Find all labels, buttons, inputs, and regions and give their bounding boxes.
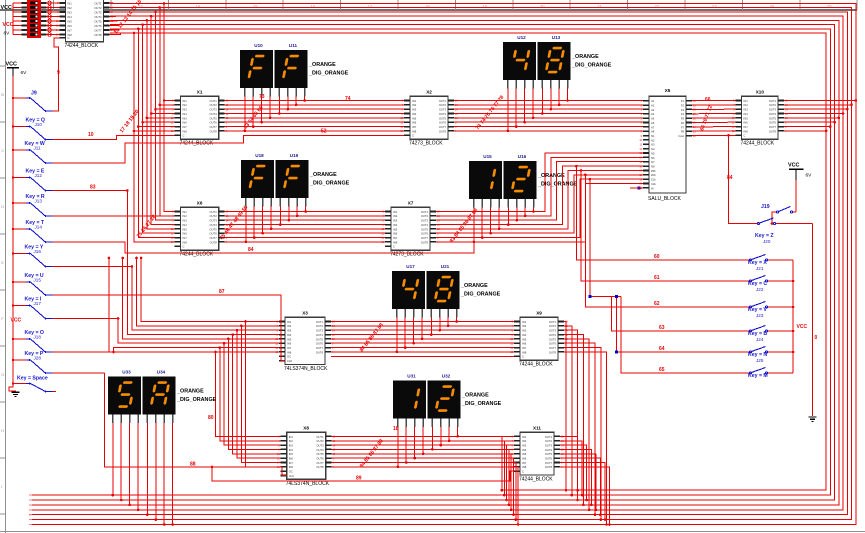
svg-text:OUT1: OUT1 [210,210,218,214]
svg-text:IN1: IN1 [412,99,417,103]
svg-text:ZFb: ZFb [651,173,656,177]
svg-text:74244_BLOCK: 74244_BLOCK [180,141,214,147]
svg-text:OUT1: OUT1 [545,435,553,439]
svg-text:A4: A4 [651,112,655,116]
svg-text:U16: U16 [518,154,527,159]
svg-text:X1: X1 [197,90,203,95]
svg-text:OUT1: OUT1 [316,320,324,324]
svg-text:C: C [183,245,185,249]
wires: X2 outputs to X5 A inputs [454,100,643,102]
svg-text:IN3: IN3 [522,444,527,448]
svg-text:IN8: IN8 [287,350,292,354]
svg-text:74244_BLOCK: 74244_BLOCK [65,43,99,49]
svg-text:IN7: IN7 [289,461,294,465]
IC X1 74244_BLOCK [171,90,229,147]
svg-text:OUT8: OUT8 [210,240,218,244]
svg-text:OUT6: OUT6 [210,232,218,236]
wires: X1 outputs to X2 inputs (bus R1) [225,100,404,102]
7-seg display U32 showing 2 [428,374,461,428]
svg-text:IN7: IN7 [744,125,749,129]
switch Key = I [13,297,52,321]
svg-text:OUT3: OUT3 [210,108,218,112]
svg-text:OUT6: OUT6 [210,121,218,125]
svg-text:OUT6: OUT6 [549,342,557,346]
7-seg display U11 showing F [275,43,308,97]
svg-text:_ORANGE: _ORANGE [309,172,337,178]
svg-text:OUT3: OUT3 [210,219,218,223]
svg-text:IN5: IN5 [522,337,527,341]
svg-text:C: C [412,134,414,138]
svg-text:IN6: IN6 [393,232,398,236]
svg-text:OUT6: OUT6 [316,342,324,346]
svg-text:IN3: IN3 [183,108,188,112]
svg-text:IN1: IN1 [522,435,527,439]
svg-text:IN8: IN8 [183,240,188,244]
svg-text:6V: 6V [806,173,813,179]
svg-text:Cout: Cout [678,134,684,138]
svg-text:OUT8: OUT8 [421,240,429,244]
svg-text:OUT7: OUT7 [421,236,429,240]
svg-text:74244_BLOCK: 74244_BLOCK [519,362,553,368]
svg-text:IN5: IN5 [183,227,188,231]
wires: X7 outputs nest up to X5 N inputs [436,153,643,212]
svg-text:IN4: IN4 [287,333,292,337]
switch Key = W [13,141,52,165]
wires: X11 outputs down to bottom bus [560,436,578,490]
svg-text:N1: N1 [651,134,655,138]
svg-text:OUT2: OUT2 [421,214,429,218]
svg-text:IN7: IN7 [183,236,188,240]
IC X5 SALU_BLOCK [639,88,696,202]
junction squares (blue) on net 62 [589,295,592,298]
svg-text:OUT5: OUT5 [769,116,777,120]
svg-text:IN6: IN6 [287,342,292,346]
svg-text:74273_BLOCK: 74273_BLOCK [409,141,443,147]
power VCC right symbol [788,163,812,181]
svg-text:IN6: IN6 [68,24,73,28]
7-seg display U17 showing 4 [392,264,425,318]
wire: key Z to ground rail [812,224,814,417]
svg-text:C: C [183,134,185,138]
wires: X8 outputs to X11 inputs (bus R4) [332,435,514,437]
wire net 84 [52,242,474,253]
svg-text:U12: U12 [517,35,526,40]
svg-text:IN4: IN4 [412,112,417,116]
svg-text:F2: F2 [681,104,685,108]
svg-text:N2: N2 [651,138,655,142]
switch Key = R [13,194,52,218]
svg-text:OUT1: OUT1 [210,99,218,103]
wire: right VCC rail [795,180,797,212]
svg-text:IN3: IN3 [68,10,73,14]
svg-text:OUT4: OUT4 [94,15,102,19]
svg-text:OUT7: OUT7 [316,461,324,465]
svg-text:OUT6: OUT6 [439,121,447,125]
svg-text:IN2: IN2 [287,324,292,328]
svg-text:IN7: IN7 [393,236,398,240]
wires: X6 outputs to X7 inputs (bus R2) [225,211,385,213]
svg-text:IN1: IN1 [183,210,188,214]
wires: U18/U19 pins down to R2 rows [245,207,247,242]
svg-text:87: 87 [219,289,225,295]
svg-text:_DIG_ORANGE: _DIG_ORANGE [308,71,349,77]
junction dot X5 W pin [638,187,641,190]
svg-text:_ORANGE: _ORANGE [308,62,336,68]
svg-text:OUT8: OUT8 [94,33,102,37]
svg-text:OUT1: OUT1 [549,320,557,324]
svg-text:VCC: VCC [1,5,12,11]
svg-text:IN1: IN1 [393,210,398,214]
svg-text:65: 65 [659,367,665,373]
svg-text:J18: J18 [34,335,42,340]
svg-text:OUT4: OUT4 [769,112,777,116]
svg-text:IN2: IN2 [522,439,527,443]
svg-text:IN5: IN5 [522,452,527,456]
wires: U12/U13 pins down to R1 rows [507,89,509,131]
IC X11 74244_BLOCK [510,426,564,483]
svg-text:OUT3: OUT3 [421,219,429,223]
svg-text:C: C [68,36,70,40]
IC X10 74244_BLOCK [732,90,789,147]
switch J20 Key=Z [755,218,813,244]
svg-text:OUT4: OUT4 [210,223,218,227]
svg-text:F6: F6 [681,121,685,125]
svg-text:OUT5: OUT5 [545,452,553,456]
svg-text:A2: A2 [651,104,655,108]
svg-text:N4: N4 [651,147,655,151]
svg-text:IN7: IN7 [68,28,73,32]
svg-text:IN2: IN2 [744,103,749,107]
wires: X10 outputs to right wrap bus [784,100,856,102]
switch Key = T [13,220,52,244]
wire net 87: key I to X3 clock [52,295,285,361]
IC X9 74244_BLOCK [510,311,568,368]
svg-text:F3: F3 [681,108,685,112]
svg-text:N8: N8 [651,165,655,169]
svg-text:OUT5: OUT5 [210,116,218,120]
svg-text:J22: J22 [756,287,764,292]
IC X7 74273_BLOCK [381,201,440,258]
wires: U15/U16 pins down to R2 rows [473,208,475,242]
svg-text:52: 52 [321,128,327,134]
svg-text:0: 0 [815,335,818,341]
svg-text:A3: A3 [651,108,655,112]
svg-text:J20: J20 [763,239,771,244]
svg-text:IN2: IN2 [183,214,188,218]
svg-text:A7: A7 [651,125,655,129]
wires: X11 inputs from bottom bus [502,436,514,490]
svg-text:A8: A8 [651,130,655,134]
switch Key = Y [13,245,52,269]
svg-text:OUT8: OUT8 [210,129,218,133]
switch J25 Key=N [748,347,793,364]
wire: key Space to ground [52,391,56,393]
svg-text:74244_BLOCK: 74244_BLOCK [741,141,775,147]
svg-text:IN6: IN6 [183,121,188,125]
svg-text:OUT8: OUT8 [316,350,324,354]
svg-text:74LS374N_BLOCK: 74LS374N_BLOCK [286,481,330,487]
svg-text:IN4: IN4 [522,333,527,337]
svg-text:IN7: IN7 [522,346,527,350]
svg-text:U21: U21 [441,264,450,269]
svg-text:OUT6: OUT6 [94,24,102,28]
wire: right chain rail [792,260,794,373]
svg-text:C: C [522,355,524,359]
svg-text:A1: A1 [651,99,655,103]
wires: X9 outputs down to bottom bus [564,322,566,491]
svg-text:IN3: IN3 [289,444,294,448]
svg-text:OUT8: OUT8 [316,465,324,469]
svg-text:_DIG_ORANGE: _DIG_ORANGE [176,397,217,403]
svg-text:N7: N7 [651,160,655,164]
svg-text:83: 83 [90,185,96,191]
svg-text:_DIG_ORANGE: _DIG_ORANGE [309,181,350,187]
svg-text:OUT7: OUT7 [769,125,777,129]
7-seg display U10 showing F [240,43,273,97]
svg-text:X8: X8 [303,426,309,431]
7-seg display U19 showing F [276,153,309,207]
svg-text:U17: U17 [406,264,415,269]
svg-text:X3: X3 [302,311,308,316]
svg-text:_ORANGE: _ORANGE [571,54,599,60]
svg-text:OUT2: OUT2 [94,6,102,10]
svg-text:60: 60 [654,254,660,260]
svg-text:Z1b: Z1b [651,178,656,182]
wire: VCC feed to DIP switch inputs [12,3,14,35]
svg-text:CLK: CLK [289,474,294,478]
svg-text:IN1: IN1 [289,435,294,439]
svg-text:61: 61 [654,275,660,281]
wire: key O output into X3 row [52,351,113,353]
svg-text:IN8: IN8 [522,350,527,354]
svg-text:IN4: IN4 [522,448,527,452]
svg-text:OUT8: OUT8 [549,350,557,354]
svg-text:OUT3: OUT3 [769,108,777,112]
wire: J19 left to key Z row [772,212,776,224]
svg-text:_ORANGE: _ORANGE [176,389,204,395]
svg-text:IN5: IN5 [393,227,398,231]
wire: key R output into X6 row [52,215,174,217]
svg-text:B: B [1,92,4,97]
svg-text:OUT4: OUT4 [316,448,324,452]
7-seg display U34 showing A [143,370,176,424]
svg-text:OUT8: OUT8 [769,129,777,133]
svg-text:OUT3: OUT3 [545,444,553,448]
svg-text:U32: U32 [442,374,451,379]
7-seg display U21 showing 8 [427,264,460,318]
svg-text:IN3: IN3 [744,108,749,112]
svg-text:IN3: IN3 [287,329,292,333]
svg-text:G: G [1,372,4,377]
7-seg display U33 showing 5 [108,370,141,424]
svg-text:IN8: IN8 [183,129,188,133]
wire net 52: key W to X2 clock [52,135,404,163]
svg-text:Ckb: Ckb [651,182,656,186]
svg-text:IN6: IN6 [289,457,294,461]
svg-text:I: I [1,484,2,489]
svg-text:IN5: IN5 [744,116,749,120]
svg-text:OUT5: OUT5 [549,337,557,341]
svg-text:OUT3: OUT3 [94,10,102,14]
svg-text:H: H [1,428,4,433]
wire net 83: key E output [52,190,127,192]
svg-text:U31: U31 [407,374,416,379]
DIP switch S1 (red, 8 positions) [22,0,47,38]
svg-text:OUT4: OUT4 [549,333,557,337]
svg-text:OUT6: OUT6 [421,232,429,236]
switch J23 Key=V [748,302,793,319]
svg-text:IN8: IN8 [289,465,294,469]
IC X8 74LS374N_BLOCK [277,426,336,487]
svg-text:A6: A6 [651,121,655,125]
svg-text:OUT4: OUT4 [210,112,218,116]
svg-text:IN8: IN8 [744,129,749,133]
net label 88 wire [104,373,286,476]
svg-text:OUT2: OUT2 [549,324,557,328]
svg-text:C: C [522,470,524,474]
svg-text:OUT2: OUT2 [769,103,777,107]
svg-text:IN3: IN3 [522,329,527,333]
svg-text:IN7: IN7 [412,125,417,129]
wires: U10/U11 pins down to R1 rows [244,97,246,131]
svg-text:U13: U13 [552,35,561,40]
svg-text:X9: X9 [536,311,542,316]
svg-text:OUT5: OUT5 [316,337,324,341]
svg-text:OUT7: OUT7 [439,125,447,129]
svg-text:OUT7: OUT7 [549,346,557,350]
svg-text:IN8: IN8 [412,129,417,133]
switch J24 Key=B [748,326,793,343]
svg-text:J17: J17 [34,301,42,306]
svg-text:IN1: IN1 [522,320,527,324]
7-seg display U16 showing 2 [504,154,537,208]
switch Key=M [748,368,793,380]
svg-text:J11: J11 [34,146,42,151]
svg-text:OUT1: OUT1 [94,1,102,5]
svg-text:F1: F1 [681,99,685,103]
IC X3 74LS374N_BLOCK [275,311,335,372]
ground right [809,417,817,421]
switch Key = P [13,351,52,375]
svg-text:IN6: IN6 [522,342,527,346]
ground at key space [9,384,20,397]
svg-text:_ORANGE: _ORANGE [460,283,488,289]
svg-text:J21: J21 [756,266,764,271]
wire: key Y output [52,266,132,268]
switch J22 Key=C [748,276,793,293]
svg-text:IN6: IN6 [183,232,188,236]
svg-text:IN5: IN5 [183,116,188,120]
wire: left VCC rail [12,76,14,384]
svg-text:OUT1: OUT1 [421,210,429,214]
svg-text:N5: N5 [651,151,655,155]
svg-text:X7: X7 [408,201,414,206]
svg-text:OUT4: OUT4 [316,333,324,337]
svg-text:U33: U33 [122,370,131,375]
svg-text:C: C [744,134,746,138]
svg-text:Key = M: Key = M [748,373,768,379]
svg-text:66: 66 [705,97,711,103]
sheet bottom edge [0,531,865,533]
svg-text:U11: U11 [289,43,298,48]
svg-text:OUT2: OUT2 [316,324,324,328]
svg-text:X10: X10 [756,90,765,95]
svg-text:D: D [1,204,4,209]
svg-text:OUT2: OUT2 [210,103,218,107]
svg-text:OUT3: OUT3 [316,444,324,448]
svg-text:IN2: IN2 [68,6,73,10]
wires: X5 outputs to X10 inputs [692,100,736,102]
svg-text:IN3: IN3 [183,219,188,223]
svg-text:SALU_BLOCK: SALU_BLOCK [648,196,681,202]
svg-text:IN5: IN5 [289,452,294,456]
wire: key I output [52,318,118,320]
svg-text:IN2: IN2 [522,324,527,328]
svg-text:IN2: IN2 [412,103,417,107]
svg-text:80: 80 [208,415,214,421]
svg-text:Key = Space: Key = Space [17,376,48,382]
svg-text:OUT2: OUT2 [316,439,324,443]
svg-text:OUT4: OUT4 [545,448,553,452]
svg-text:89: 89 [356,476,362,482]
7-seg display U13 showing 8 [538,35,571,89]
svg-text:F8: F8 [681,130,685,134]
7-seg display U18 showing F [241,153,274,207]
svg-text:IN2: IN2 [183,103,188,107]
switch Key = O [13,330,52,354]
svg-text:_DIG_ORANGE: _DIG_ORANGE [571,63,612,69]
svg-text:IN6: IN6 [744,121,749,125]
svg-text:IN7: IN7 [522,461,527,465]
switch Key = Space [13,376,52,394]
svg-text:J24: J24 [756,337,764,342]
svg-text:J25: J25 [756,358,764,363]
svg-text:IN4: IN4 [393,223,398,227]
svg-text:U15: U15 [483,154,492,159]
7-seg display U15 showing 1 [469,154,502,208]
svg-text:IN6: IN6 [522,457,527,461]
svg-text:IN5: IN5 [68,19,73,23]
svg-text:IN4: IN4 [744,112,749,116]
svg-text:IN4: IN4 [183,223,188,227]
svg-text:_ORANGE: _ORANGE [461,393,489,399]
svg-text:IN3: IN3 [393,219,398,223]
svg-text:OUT5: OUT5 [316,452,324,456]
svg-text:IN1: IN1 [68,1,73,5]
svg-text:N6: N6 [651,156,655,160]
svg-text:U10: U10 [254,43,263,48]
svg-text:6V: 6V [4,31,11,37]
wire net 84 right side: to key Z [729,135,759,223]
svg-text:J15: J15 [34,278,42,283]
svg-text:OUT4: OUT4 [439,112,447,116]
svg-text:OUT6: OUT6 [316,457,324,461]
svg-text:IN1: IN1 [744,99,749,103]
svg-text:OUT2: OUT2 [545,439,553,443]
wire: key P output (net 88 start) [52,372,104,374]
svg-text:OUT6: OUT6 [769,121,777,125]
svg-text:OUT3: OUT3 [439,108,447,112]
svg-text:63: 63 [659,325,665,331]
svg-text:OUT1: OUT1 [769,99,777,103]
wires: U31/U32 pins down to R4 rows [397,427,399,467]
svg-text:IN7: IN7 [287,346,292,350]
svg-text:_DIG_ORANGE: _DIG_ORANGE [537,182,578,188]
svg-text:IN6: IN6 [412,121,417,125]
svg-text:IN4: IN4 [183,112,188,116]
IC X6 74244_BLOCK [171,201,229,258]
svg-text:VCC: VCC [797,324,808,330]
